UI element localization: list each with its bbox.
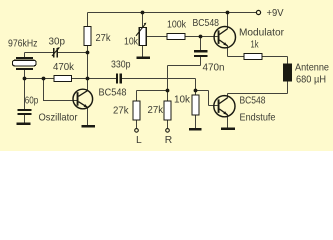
svg-text:27k: 27k — [113, 106, 129, 117]
svg-text:Endstufe: Endstufe — [240, 112, 276, 123]
svg-text:Oszillator: Oszillator — [39, 112, 79, 123]
svg-text:10k: 10k — [174, 94, 191, 105]
svg-text:+9V: +9V — [267, 8, 284, 19]
svg-text:100k: 100k — [167, 20, 187, 31]
svg-text:330p: 330p — [111, 60, 131, 71]
svg-text:30p: 30p — [49, 37, 66, 48]
svg-text:R: R — [165, 135, 172, 146]
svg-text:Modulator: Modulator — [239, 27, 285, 38]
svg-text:Antenne: Antenne — [295, 63, 329, 74]
svg-text:470k: 470k — [53, 62, 75, 73]
svg-text:27k: 27k — [96, 33, 112, 44]
svg-text:1k: 1k — [251, 39, 260, 50]
svg-text:BC548: BC548 — [99, 88, 127, 99]
svg-text:60p: 60p — [25, 95, 39, 106]
svg-text:680 µH: 680 µH — [296, 75, 326, 86]
svg-text:BC548: BC548 — [193, 18, 220, 29]
svg-text:470n: 470n — [203, 63, 225, 74]
svg-text:BC548: BC548 — [240, 96, 266, 107]
svg-text:10k: 10k — [124, 37, 139, 48]
svg-text:L: L — [136, 135, 142, 146]
svg-text:976kHz: 976kHz — [8, 39, 38, 50]
svg-text:27k: 27k — [148, 105, 164, 116]
